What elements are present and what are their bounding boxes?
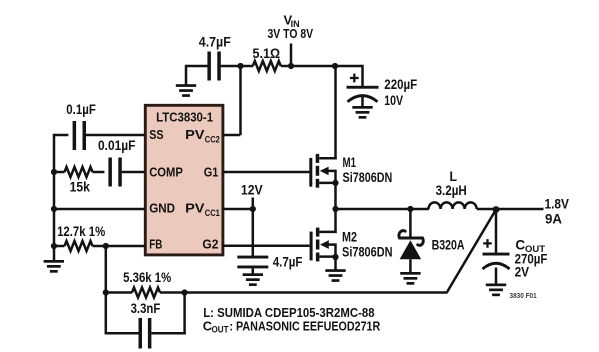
svg-text:3830 F01: 3830 F01: [510, 291, 537, 300]
svg-text:: PANASONIC EEFUEOD271R: : PANASONIC EEFUEOD271R: [230, 318, 381, 333]
node output junction: [493, 206, 500, 213]
M2 body-source vertical: [334, 243, 337, 256]
wire SW to diode cathode: [409, 209, 412, 237]
node divider left junction: [103, 289, 109, 295]
wire left rail vertical: [53, 134, 56, 260]
node COMP row junction: [51, 169, 57, 175]
capacitor C 0.1uF: [73, 121, 86, 150]
capacitor C 4.7uF (top): [207, 52, 220, 81]
node FB divider junction: [103, 243, 109, 249]
wire FB row right: [93, 245, 146, 248]
svg-text:220µF: 220µF: [384, 77, 417, 92]
wire PVCC1 stub: [223, 208, 253, 211]
resistor R 5.1 ohm: [253, 61, 281, 71]
resistor R 12.7k 1%: [65, 241, 93, 251]
wire SW rail: [334, 208, 429, 211]
wire PVCC2 vertical: [239, 65, 242, 135]
M2 body-diode arrow: [320, 240, 329, 249]
svg-text:LTC3830-1: LTC3830-1: [156, 109, 213, 124]
svg-text:9A: 9A: [545, 211, 562, 226]
svg-text:2V: 2V: [515, 265, 530, 280]
node diode junction: [407, 206, 413, 212]
svg-text:G2: G2: [202, 236, 218, 251]
svg-text:5.36k 1%: 5.36k 1%: [123, 270, 171, 285]
M1 source stub: [319, 182, 335, 185]
svg-text:CC1: CC1: [205, 208, 221, 219]
M2 source stub: [319, 255, 335, 258]
wire feedback diagonal: [447, 210, 496, 293]
wire G1 to M1 gate: [223, 171, 310, 174]
wire SW to M2 drain: [334, 208, 337, 233]
wire M2 source to ground: [334, 257, 337, 270]
svg-text:10V: 10V: [384, 93, 403, 108]
svg-text:COMP: COMP: [149, 165, 183, 180]
inductor L 3.2uH: [429, 202, 477, 209]
svg-text:SS: SS: [149, 127, 164, 142]
wire FB row left: [54, 245, 65, 248]
svg-text:PV: PV: [185, 201, 205, 216]
svg-text:15k: 15k: [70, 180, 91, 195]
ground (top-left, 4.7uF): [185, 65, 188, 85]
transistor M2 Si7806DN NMOS: [310, 228, 320, 262]
wire COMP row mid: [93, 171, 105, 174]
wire G2 to M2 gate: [223, 244, 310, 247]
wire PVCC2 stub: [223, 134, 241, 137]
diode D B320A schottky: [399, 231, 423, 246]
capacitor C 0.01uF: [108, 158, 121, 187]
node M2 source junction: [332, 254, 338, 260]
svg-text:1.8V: 1.8V: [545, 196, 569, 211]
svg-text:3V TO 8V: 3V TO 8V: [268, 26, 314, 41]
svg-text:B320A: B320A: [432, 238, 465, 253]
ground (220uF): [352, 106, 372, 119]
svg-text:G1: G1: [204, 165, 219, 180]
svg-text:M2: M2: [342, 229, 357, 244]
M1 drain stub: [319, 157, 337, 160]
node FB row junction: [51, 243, 57, 249]
plus sign of C 220uF: [350, 74, 359, 83]
svg-text:3.2µH: 3.2µH: [436, 183, 467, 198]
node VIN junction: [288, 63, 294, 69]
svg-text:GND: GND: [149, 201, 175, 216]
wire 3.3nF loop bottom right: [151, 332, 185, 335]
M2 drain stub: [319, 231, 336, 234]
wire M1 source to SW node: [334, 183, 337, 209]
svg-text:3.3nF: 3.3nF: [131, 301, 161, 316]
svg-text:L: L: [450, 169, 458, 184]
wire diode anode to ground: [409, 259, 412, 272]
wire L to output node: [477, 208, 496, 211]
wire divider row to diagonal: [160, 291, 448, 294]
node junction PVCC2 branch: [237, 63, 243, 69]
ground (COUT): [486, 284, 506, 297]
plus sign of COUT: [483, 239, 492, 248]
svg-text:4.7µF: 4.7µF: [199, 35, 231, 50]
M2 body stub: [328, 243, 336, 246]
svg-text:PV: PV: [185, 127, 205, 142]
wire divider row left: [106, 291, 132, 294]
node 12V junction: [250, 206, 256, 212]
capacitor C 3.3nF: [139, 318, 152, 349]
M1 body stub: [328, 170, 336, 173]
svg-text:0.01µF: 0.01µF: [98, 138, 136, 153]
svg-text:M1: M1: [343, 155, 357, 170]
svg-text:C: C: [515, 238, 525, 253]
wire 3.3nF loop bottom left: [105, 332, 139, 335]
svg-text:12V: 12V: [241, 183, 263, 198]
svg-text:5.1Ω: 5.1Ω: [253, 46, 281, 61]
wire 5.1R to M1 branch: [281, 65, 335, 68]
wire top rail to 5.1R: [221, 65, 253, 68]
wire FB junction down: [105, 246, 108, 293]
wire down to C 220uF: [361, 65, 364, 86]
wire top rail right segment: [334, 65, 363, 68]
transistor M1 Si7806DN NMOS: [309, 154, 319, 188]
svg-text:Si7806DN: Si7806DN: [342, 244, 393, 259]
wire output: [496, 208, 544, 211]
wire output node to COUT: [495, 209, 498, 253]
node divider right junction: [182, 289, 188, 295]
capacitor COUT 270uF polarized: [483, 253, 510, 256]
capacitor C 220uF polarized: [347, 86, 379, 89]
ground (PVCC1 cap): [243, 273, 263, 286]
IC U1 LTC3830-1 body: [145, 105, 223, 255]
ground (diode): [400, 272, 420, 285]
wire GND row: [54, 208, 145, 211]
svg-text:CC2: CC2: [205, 135, 220, 146]
wire SS row left: [54, 134, 68, 137]
svg-text:Si7806DN: Si7806DN: [343, 170, 393, 185]
wire top rail left segment: [186, 65, 208, 68]
wire SS row right: [86, 134, 145, 137]
M1 body-source vertical: [334, 170, 337, 183]
wire VIN rail to M1 drain: [334, 66, 337, 159]
resistor R 5.36k 1%: [132, 288, 160, 298]
svg-text:12.7k 1%: 12.7k 1%: [57, 224, 105, 239]
resistor R 15k: [65, 167, 93, 177]
svg-text:0.1µF: 0.1µF: [66, 102, 96, 117]
wire 12V down to C 4.7uF: [252, 198, 255, 257]
wire COMP row right: [122, 171, 145, 174]
node GND row junction: [51, 206, 57, 212]
ground (left rail): [44, 260, 64, 273]
capacitor C 4.7uF (PVCC1): [237, 256, 268, 269]
svg-text:OUT: OUT: [212, 325, 229, 335]
wire 3.3nF loop right vertical: [183, 291, 186, 334]
node M1 drain branch junction: [332, 63, 338, 69]
node M1 source junction: [332, 180, 338, 186]
ground (M2 source): [325, 269, 345, 282]
svg-text:4.7µF: 4.7µF: [273, 255, 303, 270]
svg-text:FB: FB: [149, 236, 162, 251]
node SW left junction: [332, 206, 338, 212]
M1 body-diode arrow: [320, 167, 329, 176]
wire 3.3nF loop left vertical: [105, 291, 108, 333]
wire COMP row left: [54, 171, 65, 174]
wire VIN stub: [290, 44, 293, 67]
